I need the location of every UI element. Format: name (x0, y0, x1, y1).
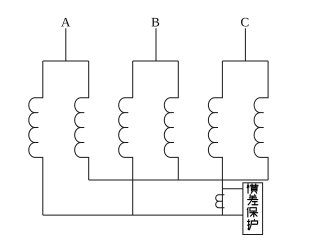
wire: neutral bus of left-branch winding set (bottom) (43, 214, 243, 216)
wire: neutral bus of right-branch winding set (89, 179, 268, 181)
node A label (61, 18, 70, 27)
text 横 (heng) (247, 183, 259, 193)
winding phase C branch 2 (right coil) with leads (254, 61, 268, 180)
wire: phase B parallel-branch bar (133, 60, 179, 62)
winding phase C branch 1 (left coil) with leads (208, 61, 222, 215)
wire: CT upper tap to relay box (222, 188, 243, 190)
text 护 (hu) (247, 219, 258, 230)
current transformer TA coil on C branch-1 conductor (216, 195, 225, 208)
text 保 (bao) (247, 207, 258, 217)
wire: phase C parallel-branch bar (222, 60, 268, 62)
relay box: transverse differential protection (横差保护) (243, 183, 263, 235)
node C label (241, 18, 248, 27)
winding phase B branch 2 (right coil) with leads (164, 61, 178, 180)
winding phase A branch 1 (left coil) with leads (29, 61, 43, 215)
wire: phase B lead (155, 28, 157, 61)
wire: phase A parallel-branch bar (43, 60, 89, 62)
wire: phase C lead (244, 28, 246, 61)
winding phase B branch 1 (left coil) with leads (119, 61, 133, 215)
node B label (152, 18, 160, 27)
winding phase A branch 2 (right coil) with leads (75, 61, 89, 180)
wire: phase A lead (65, 28, 67, 61)
text 差 (cha) (247, 194, 258, 205)
